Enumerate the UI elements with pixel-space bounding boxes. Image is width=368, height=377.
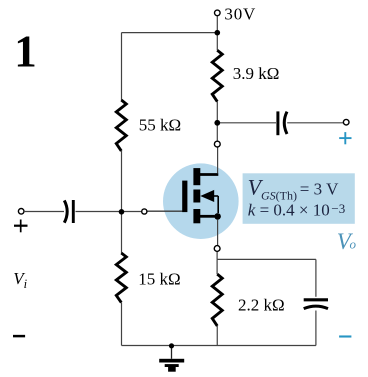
svg-text:3.9 kΩ: 3.9 kΩ	[233, 64, 280, 83]
svg-text:k = 0.4 × 10: k = 0.4 × 10	[248, 201, 330, 220]
svg-text:−3: −3	[331, 201, 345, 216]
svg-text:Vi: Vi	[13, 269, 27, 291]
svg-text:= 3 V: = 3 V	[300, 180, 339, 199]
svg-text:1: 1	[14, 27, 37, 77]
svg-text:55 kΩ: 55 kΩ	[139, 115, 181, 134]
svg-text:15 kΩ: 15 kΩ	[138, 270, 180, 289]
svg-text:30V: 30V	[224, 4, 256, 23]
svg-text:2.2 kΩ: 2.2 kΩ	[238, 296, 285, 315]
svg-text:Vo: Vo	[337, 229, 357, 254]
